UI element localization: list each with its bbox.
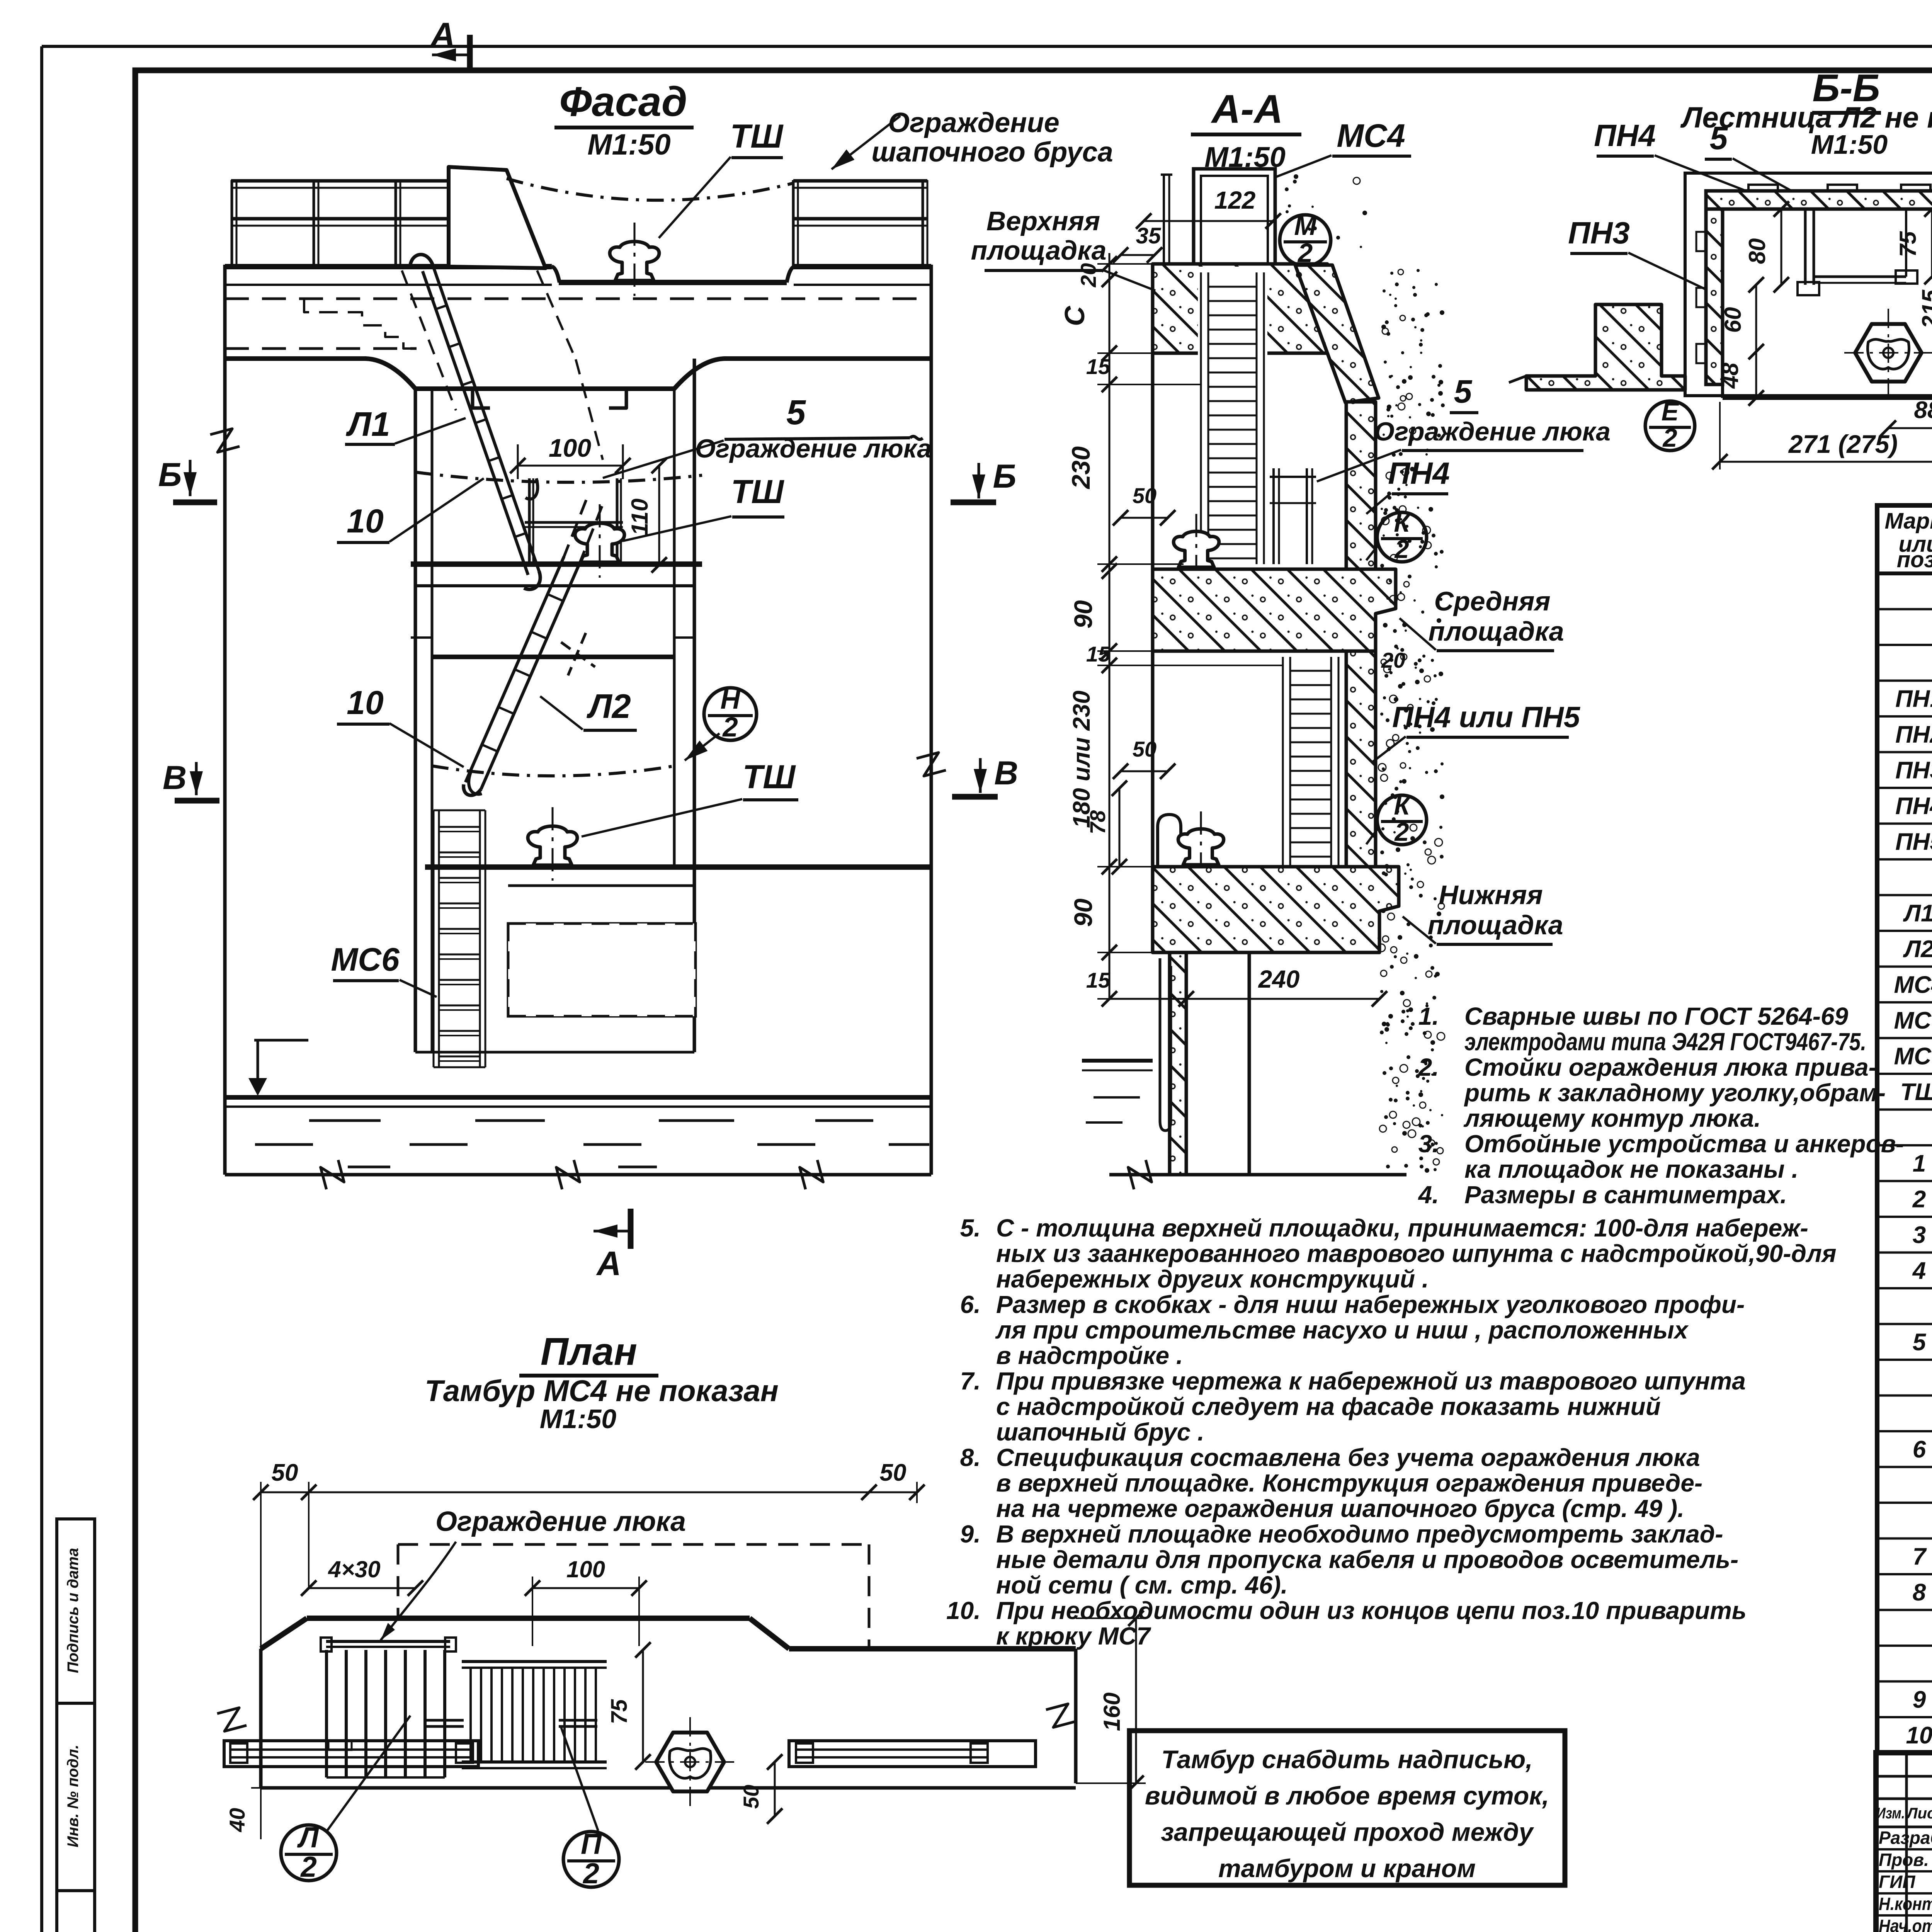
svg-text:Б: Б (158, 456, 182, 493)
svg-text:10: 10 (347, 503, 384, 540)
svg-text:8: 8 (1913, 1579, 1926, 1606)
section marker A top (467, 35, 473, 72)
tambour outline B-B (1685, 173, 1932, 396)
guard post at top (1163, 175, 1165, 264)
svg-text:С - толщина верхней площадки,: С - толщина верхней площадки, принимаетс… (996, 1214, 1808, 1242)
svg-text:5: 5 (1710, 120, 1728, 156)
svg-text:Тамбур МС4 не показан: Тамбур МС4 не показан (425, 1374, 779, 1408)
dimension 110 tier1 (658, 466, 660, 565)
chain tier2 (432, 766, 675, 776)
plan dim 50 below hexagon (774, 1762, 776, 1816)
svg-text:122: 122 (1214, 186, 1256, 214)
svg-text:Л2: Л2 (1903, 936, 1932, 963)
node circle M/2 (1280, 215, 1331, 266)
svg-text:15: 15 (1086, 354, 1111, 379)
svg-text:Спецификация составлена без уч: Спецификация составлена без учета огражд… (996, 1444, 1700, 1471)
title block frame (1876, 1753, 1932, 1932)
hatch guard posts (528, 478, 531, 564)
svg-text:ПН4 или ПН5: ПН4 или ПН5 (1392, 701, 1581, 734)
svg-text:6.: 6. (960, 1291, 981, 1318)
B-B dims 80 60 48 (1781, 209, 1782, 285)
svg-text:10.: 10. (946, 1597, 981, 1624)
svg-text:7.: 7. (960, 1367, 981, 1395)
plan ladder L2 bars (325, 1650, 328, 1777)
svg-text:88: 88 (1914, 397, 1932, 423)
dimension 122 (1144, 220, 1273, 222)
niche column inner-left (431, 389, 434, 1052)
bollard TSh tier2 (528, 826, 577, 865)
A-A left wall face (1151, 264, 1155, 952)
plan dim 4x30 (309, 1587, 415, 1589)
svg-text:48: 48 (1717, 362, 1743, 389)
specification table frame (1877, 505, 1932, 1753)
svg-text:ные детали для пропуска кабеля: ные детали для пропуска кабеля и проводо… (996, 1546, 1738, 1573)
svg-text:4.: 4. (1418, 1181, 1439, 1209)
svg-text:15: 15 (1086, 968, 1111, 992)
svg-text:215: 215 (1917, 289, 1932, 329)
svg-text:поз.: поз. (1897, 547, 1932, 572)
svg-text:П: П (581, 1828, 602, 1860)
svg-text:2: 2 (722, 712, 738, 743)
B-B left wall hatched (1706, 209, 1723, 384)
svg-text:площадка: площадка (971, 235, 1106, 265)
hatch guard frame in A-A tier1 (1272, 468, 1275, 564)
svg-text:75: 75 (607, 1699, 632, 1724)
node circle E/2 B-B (1645, 401, 1695, 451)
svg-text:Ограждение люка: Ограждение люка (435, 1506, 686, 1537)
node circle P/2 plan (563, 1832, 619, 1887)
node circle N/2 (704, 688, 757, 740)
bottom tier line (415, 1051, 694, 1054)
plan dim 100 (532, 1587, 639, 1589)
svg-text:9: 9 (1913, 1687, 1926, 1713)
svg-text:Л1: Л1 (345, 405, 390, 443)
B-B top slab hatched (1706, 191, 1932, 209)
svg-text:ТШ: ТШ (743, 759, 796, 796)
berm outline (225, 359, 931, 389)
left margin stamp boxes (57, 1519, 95, 1703)
svg-text:180 или 230: 180 или 230 (1068, 690, 1095, 828)
dashed tambour outline tier3 (508, 923, 696, 1016)
svg-text:Е: Е (1662, 397, 1680, 426)
svg-text:В: В (163, 759, 187, 796)
svg-text:ТШ: ТШ (730, 118, 784, 155)
svg-text:ПН3: ПН3 (1895, 757, 1932, 784)
middle platform edge (411, 561, 702, 567)
svg-text:Отбойные устройства и анкеров-: Отбойные устройства и анкеров- (1464, 1130, 1904, 1158)
section marker A bottom (628, 1209, 634, 1249)
svg-text:40: 40 (225, 1808, 249, 1832)
svg-text:ПН2: ПН2 (1895, 721, 1932, 748)
plan dim 160 (1135, 1618, 1137, 1783)
svg-text:ПН5: ПН5 (1895, 829, 1932, 855)
svg-text:5: 5 (1454, 373, 1473, 410)
table row lines (1877, 608, 1932, 611)
svg-text:8.: 8. (960, 1444, 981, 1471)
svg-text:271 (275): 271 (275) (1788, 430, 1898, 458)
plan top dimension 50-50 (261, 1492, 917, 1493)
svg-text:50: 50 (1133, 737, 1156, 761)
niche column inner-right (673, 389, 676, 867)
svg-text:к крюку МС7: к крюку МС7 (996, 1622, 1151, 1650)
svg-text:2: 2 (1394, 535, 1409, 564)
lower platform edge (425, 864, 931, 870)
svg-text:Ограждение: Ограждение (888, 107, 1060, 138)
svg-text:ной сети ( см. стр. 46).: ной сети ( см. стр. 46). (996, 1571, 1288, 1599)
svg-text:110: 110 (627, 498, 653, 536)
slope buttress hatched (1295, 265, 1379, 403)
svg-text:5.: 5. (960, 1214, 981, 1242)
dimension 100 tier1 (518, 465, 623, 467)
MS4 floor line across shaft (1194, 262, 1275, 266)
svg-text:15: 15 (1086, 642, 1111, 666)
plan handrail tabs (425, 1719, 464, 1722)
svg-text:Л1: Л1 (1903, 900, 1932, 927)
railing right section (793, 179, 927, 183)
svg-text:В: В (994, 755, 1018, 792)
svg-text:При необходимости один из конц: При необходимости один из концов цепи по… (996, 1597, 1747, 1624)
svg-text:50: 50 (880, 1459, 906, 1486)
svg-text:Нижняя: Нижняя (1439, 880, 1543, 910)
plan stremyanka bars (462, 1660, 607, 1663)
svg-text:Н: Н (720, 684, 741, 715)
svg-text:площадка: площадка (1427, 910, 1563, 940)
hidden niche steps dashed (304, 299, 417, 349)
plan guard bar ograzhdenie (326, 1640, 450, 1643)
water at A-A left (1082, 1059, 1153, 1063)
svg-text:видимой в любое время суток,: видимой в любое время суток, (1145, 1781, 1549, 1810)
B-B dim 75 (1931, 209, 1932, 277)
svg-text:3.: 3. (1418, 1130, 1439, 1158)
hatch opening corner marks tier1 (473, 391, 490, 408)
svg-text:Л: Л (297, 1821, 319, 1854)
svg-text:3: 3 (1913, 1222, 1926, 1248)
svg-text:50: 50 (739, 1785, 763, 1809)
wall strip PN4 tier2 hatched (1346, 651, 1376, 867)
svg-text:ля при строительстве насухо и: ля при строительстве насухо и ниш , расп… (995, 1316, 1689, 1344)
svg-text:Разраб.: Разраб. (1879, 1828, 1932, 1848)
node circle L/2 plan (281, 1825, 337, 1881)
lower wall below nizhnyaya ploshchadka (1170, 952, 1186, 1175)
svg-text:МС4: МС4 (1337, 117, 1405, 154)
sheet outer border (42, 45, 1932, 48)
svg-text:ПН4: ПН4 (1895, 793, 1932, 820)
svg-text:Размеры в сантиметрах.: Размеры в сантиметрах. (1464, 1181, 1787, 1209)
svg-text:тамбуром и краном: тамбуром и краном (1218, 1854, 1476, 1883)
svg-text:5: 5 (1913, 1329, 1927, 1356)
hidden dashed deck lines (225, 298, 931, 300)
svg-text:100: 100 (566, 1556, 605, 1582)
svg-text:80: 80 (1744, 238, 1770, 264)
svg-text:ПН3: ПН3 (1568, 216, 1630, 250)
svg-text:ПН1: ПН1 (1895, 686, 1932, 713)
svg-text:75: 75 (1895, 231, 1921, 257)
ladder L2 hidden upper part (580, 506, 602, 563)
svg-text:2.: 2. (1418, 1053, 1439, 1081)
embedded plates on top slab (1748, 185, 1778, 191)
tambour MS4 box (1194, 169, 1275, 264)
svg-text:А: А (430, 15, 455, 54)
svg-text:4×30: 4×30 (328, 1556, 380, 1582)
svg-text:Инв. № подл.: Инв. № подл. (65, 1745, 82, 1847)
svg-text:Марка: Марка (1884, 509, 1932, 534)
svg-text:в верхней площадке. Конструкци: в верхней площадке. Конструкция огражден… (996, 1469, 1702, 1497)
wall strip PN4 tier1 hatched (1346, 402, 1376, 651)
svg-text:1: 1 (1913, 1150, 1926, 1177)
svg-text:ПН4: ПН4 (1388, 456, 1450, 490)
top deck edge (225, 264, 552, 269)
water line (225, 1095, 931, 1100)
svg-text:240: 240 (1258, 965, 1300, 993)
svg-text:ТШ: ТШ (1900, 1079, 1932, 1105)
middle platform slab hatched (1153, 569, 1396, 651)
plan dim 40 (260, 1788, 262, 1839)
A-A dimension chain line (1109, 253, 1111, 999)
svg-text:20: 20 (1076, 263, 1100, 287)
water level symbol (254, 1039, 308, 1042)
svg-text:2: 2 (1912, 1186, 1926, 1213)
svg-text:С: С (1060, 306, 1090, 326)
extension lines for dims (1097, 263, 1153, 265)
svg-text:МС6: МС6 (331, 941, 400, 978)
niche column outer-right (693, 359, 696, 1052)
B-B room floor (1723, 396, 1932, 400)
svg-text:5: 5 (786, 393, 806, 432)
svg-text:ных из заанкерованного таврово: ных из заанкерованного таврового шпунта … (996, 1240, 1837, 1267)
bollard profile on lower platform (1178, 829, 1224, 865)
svg-text:100: 100 (549, 434, 591, 462)
plan slot band left (224, 1741, 478, 1767)
svg-text:Сварные швы по ГОСТ 5264-69: Сварные швы по ГОСТ 5264-69 (1464, 1002, 1849, 1030)
ladder in A-A tier2 (1282, 657, 1284, 866)
svg-text:10: 10 (1906, 1722, 1932, 1749)
svg-text:Л2: Л2 (586, 687, 631, 725)
ladder L2 (481, 563, 580, 789)
title block left grid (1905, 1753, 1908, 1932)
warning box tambour (1129, 1731, 1565, 1885)
svg-text:ляющему контур люка.: ляющему контур люка. (1463, 1104, 1761, 1132)
svg-text:50: 50 (272, 1459, 298, 1486)
svg-text:МС7: МС7 (1894, 1043, 1932, 1070)
svg-text:230: 230 (1066, 446, 1095, 490)
svg-text:шапочного бруса: шапочного бруса (871, 137, 1113, 168)
svg-text:Пров.: Пров. (1879, 1850, 1929, 1870)
svg-text:78: 78 (1085, 810, 1110, 834)
ladder shaft white-out tier1 (1198, 267, 1267, 564)
plan outline (307, 1616, 750, 1621)
ladder in A-A tier1 (1200, 272, 1202, 564)
anchor loop at wall (1160, 958, 1171, 1131)
B-B ground left (1526, 304, 1685, 390)
hex bollard plan B-B (1855, 324, 1922, 382)
svg-text:М: М (1294, 211, 1317, 241)
svg-text:запрещающей проход между: запрещающей проход между (1161, 1818, 1534, 1846)
cap beam lower edge (225, 284, 552, 286)
svg-text:Изм.: Изм. (1876, 1805, 1905, 1822)
ladder MS6 stremyanka (433, 810, 435, 1067)
water dashes (309, 1119, 381, 1122)
ladder L1 (434, 267, 539, 571)
svg-text:50: 50 (1133, 483, 1156, 508)
svg-text:Ограждение люка: Ограждение люка (695, 434, 932, 463)
svg-text:МС4: МС4 (1894, 972, 1932, 998)
svg-text:2: 2 (1394, 818, 1409, 847)
svg-text:2: 2 (582, 1857, 599, 1889)
svg-text:Верхняя: Верхняя (986, 206, 1100, 236)
bollard TSh tier1 (575, 523, 624, 562)
svg-text:90: 90 (1069, 600, 1097, 629)
svg-text:ТШ: ТШ (731, 473, 785, 510)
svg-text:2: 2 (1662, 423, 1677, 452)
svg-text:При привязке чертежа к набереж: При привязке чертежа к набережной из тав… (996, 1367, 1746, 1395)
svg-text:Средняя: Средняя (1434, 586, 1550, 616)
svg-text:М1:50: М1:50 (540, 1404, 616, 1434)
svg-text:шапочный брус .: шапочный брус . (996, 1418, 1204, 1446)
svg-text:А: А (596, 1244, 621, 1282)
lower platform slab hatched (1153, 867, 1399, 952)
plan dim 75 (642, 1650, 644, 1762)
niche column outer-left (414, 389, 417, 1052)
svg-text:Фасад: Фасад (559, 78, 687, 125)
node circle K/2 upper (1377, 512, 1427, 562)
svg-text:Б: Б (993, 458, 1017, 495)
A-A bottom break (1109, 1173, 1406, 1177)
svg-text:ка площадок не показаны .: ка площадок не показаны . (1464, 1155, 1798, 1183)
plan slot band right (789, 1741, 1036, 1767)
svg-text:А-А: А-А (1211, 87, 1283, 132)
svg-text:7: 7 (1913, 1544, 1927, 1570)
svg-text:с надстройкой следует на фасад: с надстройкой следует на фасаде показать… (996, 1393, 1661, 1420)
svg-text:ГИП: ГИП (1879, 1872, 1915, 1892)
facade left wall edge (223, 265, 227, 1175)
svg-text:Тамбур снабдить надписью,: Тамбур снабдить надписью, (1161, 1745, 1532, 1774)
svg-text:на на чертеже ограждения шапоч: на на чертеже ограждения шапочного бруса… (996, 1495, 1684, 1522)
plan hex bollard (656, 1733, 724, 1791)
facade bottom break line (225, 1173, 931, 1177)
svg-text:Стойки ограждения люка прива-: Стойки ограждения люка прива- (1464, 1053, 1877, 1081)
svg-text:рить к закладному уголку,обрам: рить к закладному уголку,обрам- (1464, 1079, 1886, 1107)
svg-text:набережных других конструкций: набережных других конструкций . (996, 1265, 1429, 1293)
svg-text:35: 35 (1136, 223, 1161, 248)
svg-text:в надстройке .: в надстройке . (996, 1342, 1183, 1369)
svg-text:площадка: площадка (1428, 616, 1564, 646)
svg-text:Размер в скобках - для ниш наб: Размер в скобках - для ниш набережных уг… (996, 1291, 1745, 1318)
svg-text:В верхней площадке необходимо: В верхней площадке необходимо предусмотр… (996, 1520, 1723, 1548)
ladder plan view in B-B (1804, 209, 1807, 285)
top platform slab hatched (1153, 264, 1327, 353)
chain tier1 hatch guard (415, 472, 702, 482)
svg-text:Н.контр.: Н.контр. (1879, 1894, 1932, 1914)
railing end block trapezoid (449, 167, 546, 268)
svg-text:МС6: МС6 (1894, 1007, 1932, 1034)
svg-text:90: 90 (1069, 898, 1097, 927)
svg-text:6: 6 (1913, 1436, 1926, 1463)
svg-text:Лист: Лист (1906, 1805, 1932, 1822)
railing left section (231, 179, 449, 183)
chain on top deck (507, 179, 793, 200)
bollard profile on middle platform (1173, 531, 1219, 567)
plan hatch dashed rectangle (398, 1543, 869, 1546)
svg-text:электродами типа Э42Я ГОСТ9467: электродами типа Э42Я ГОСТ9467-75. (1464, 1028, 1866, 1056)
soil dots right of A-A (1398, 403, 1405, 410)
svg-text:1.: 1. (1418, 1002, 1439, 1030)
bollard TSh on top deck (610, 241, 659, 281)
svg-text:10: 10 (347, 684, 384, 721)
svg-text:Нач.отд.: Нач.отд. (1879, 1916, 1932, 1932)
svg-text:160: 160 (1099, 1692, 1125, 1731)
facade right wall edge (930, 265, 933, 1175)
node circle K/2 lower (1377, 795, 1427, 845)
hidden chain diagonal dashed (537, 270, 576, 359)
svg-text:М1:50: М1:50 (1811, 129, 1888, 160)
svg-text:План: План (541, 1330, 637, 1373)
svg-text:Подпись и дата: Подпись и дата (65, 1548, 82, 1673)
svg-text:9.: 9. (960, 1520, 981, 1548)
svg-text:60: 60 (1720, 307, 1746, 333)
B-B dim 271(275) (1720, 461, 1932, 463)
B-B dim 88 (1888, 427, 1932, 429)
hook MS7 on lower platform (1158, 815, 1181, 867)
svg-text:ПН4: ПН4 (1594, 118, 1656, 153)
svg-text:М1:50: М1:50 (587, 128, 670, 161)
svg-text:4: 4 (1912, 1258, 1926, 1284)
svg-text:2: 2 (300, 1850, 317, 1883)
